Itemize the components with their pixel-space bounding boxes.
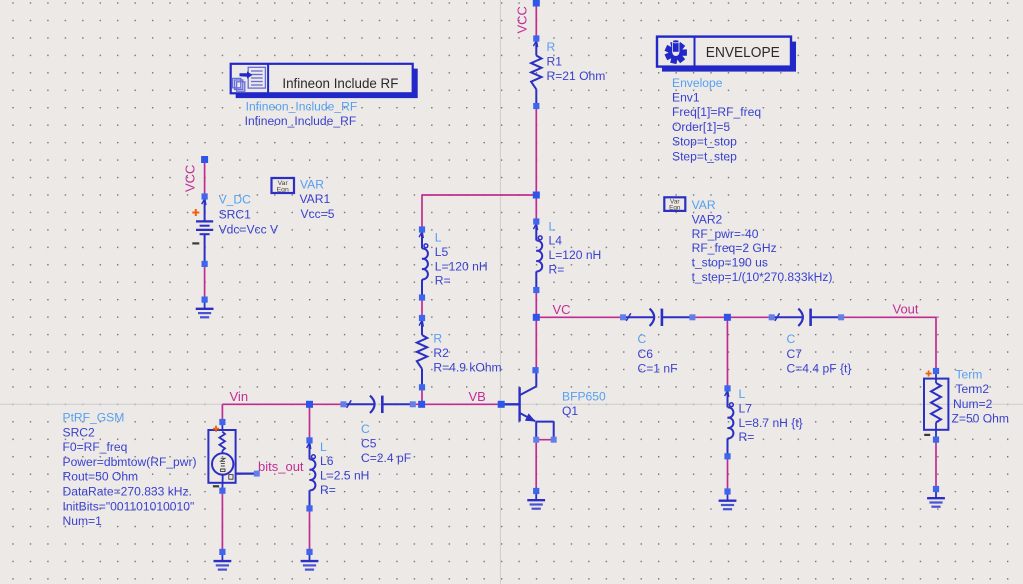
svg-text:t_stop=190 us: t_stop=190 us xyxy=(692,256,768,270)
svg-text:InitBits="001101010010": InitBits="001101010010" xyxy=(63,499,195,513)
wire R1 to L4 / junction xyxy=(535,106,537,222)
plus marker SRC2 xyxy=(213,428,219,430)
svg-text:C=4.4 pF {t}: C=4.4 pF {t} xyxy=(787,361,852,375)
wire C6 to C7 xyxy=(693,316,772,318)
svg-text:C5: C5 xyxy=(361,437,377,451)
svg-text:VB: VB xyxy=(469,389,486,404)
ground under Q1 emitter xyxy=(527,488,545,509)
inductor L7 xyxy=(724,385,733,459)
svg-text:Num=2: Num=2 xyxy=(953,397,993,411)
svg-text:R=: R= xyxy=(320,483,336,497)
svg-text:R1: R1 xyxy=(547,54,563,68)
svg-text:Eqn: Eqn xyxy=(669,205,681,212)
wire R2 to VB node xyxy=(421,387,423,404)
svg-text:L=2.5 nH: L=2.5 nH xyxy=(320,469,369,483)
svg-text:Q1: Q1 xyxy=(562,404,578,418)
svg-text:Order[1]=5: Order[1]=5 xyxy=(672,120,730,134)
ground under Term2 xyxy=(927,486,945,507)
svg-text:t_step=1/(10*270.833kHz): t_step=1/(10*270.833kHz) xyxy=(692,270,833,284)
svg-text:L4: L4 xyxy=(549,234,563,248)
svg-text:R=21 Ohm: R=21 Ohm xyxy=(547,69,606,83)
svg-text:VAR1: VAR1 xyxy=(300,192,331,206)
svg-text:R=4.9 kOhm: R=4.9 kOhm xyxy=(433,361,501,375)
svg-text:bits_out: bits_out xyxy=(258,459,304,474)
plus marker SRC1 xyxy=(192,212,199,214)
transistor Q1 BFP650 xyxy=(501,367,557,443)
svg-text:Infineon Include RF: Infineon Include RF xyxy=(282,75,398,91)
wire VC xyxy=(536,316,623,318)
svg-text:C: C xyxy=(361,422,370,436)
svg-text:Infineon_Include_RF: Infineon_Include_RF xyxy=(245,114,357,128)
svg-text:Term: Term xyxy=(956,367,983,381)
wire VCC stub SRC1 xyxy=(204,160,206,197)
svg-text:Envelope: Envelope xyxy=(672,76,723,90)
wire Vin to SRC2 xyxy=(221,404,223,422)
wire C7 to Vout corner xyxy=(841,316,936,318)
node VC xyxy=(533,314,540,321)
node base xyxy=(498,401,505,408)
DC source SRC1 xyxy=(192,193,213,267)
minus marker Term2 xyxy=(924,434,930,436)
ground under SRC1 xyxy=(196,297,214,318)
RF source SRC2 xyxy=(208,419,259,494)
svg-text:Vin: Vin xyxy=(230,389,249,404)
envelope gear icon xyxy=(665,41,687,64)
wire Term2 to ground xyxy=(935,440,937,489)
net label VCC top xyxy=(515,6,530,33)
svg-text:L7: L7 xyxy=(739,401,753,415)
plus marker Term2 xyxy=(926,373,932,375)
node VB / R2 xyxy=(418,401,425,408)
svg-text:Num=1: Num=1 xyxy=(63,514,103,528)
inductor L4 xyxy=(533,218,542,293)
svg-text:R: R xyxy=(433,332,442,346)
svg-text:SRC1: SRC1 xyxy=(219,208,252,222)
svg-text:L: L xyxy=(320,440,327,454)
svg-text:Vdc=Vcc V: Vdc=Vcc V xyxy=(219,222,279,236)
wire down to L7 xyxy=(726,317,728,388)
svg-text:RF_freq=2 GHz: RF_freq=2 GHz xyxy=(692,241,777,255)
svg-text:Vcc=5: Vcc=5 xyxy=(301,207,335,221)
svg-text:C7: C7 xyxy=(787,347,803,361)
wire L5 to R2 xyxy=(421,298,423,319)
wire emitter to ground xyxy=(535,440,537,491)
terminator Term2 xyxy=(924,368,948,443)
svg-text:Z=50 Ohm: Z=50 Ohm xyxy=(952,412,1009,426)
svg-text:Eqn: Eqn xyxy=(277,187,289,194)
svg-text:L: L xyxy=(435,231,442,245)
ground under L6 xyxy=(301,549,319,570)
svg-text:VCC: VCC xyxy=(515,6,530,33)
wire L7 to ground xyxy=(727,456,729,491)
inductor L6 xyxy=(306,437,315,511)
minus marker SRC1 xyxy=(192,242,199,244)
svg-text:L: L xyxy=(549,219,556,233)
wire SRC2 to ground xyxy=(221,491,223,552)
svg-text:R: R xyxy=(547,40,556,54)
inductor L5 xyxy=(419,226,428,300)
node junction L5 branch xyxy=(533,192,540,199)
svg-text:Vout: Vout xyxy=(893,302,919,317)
svg-text:Stop=t_stop: Stop=t_stop xyxy=(672,135,737,149)
wire down to L5 xyxy=(421,194,423,229)
svg-text:VAR2: VAR2 xyxy=(692,212,723,226)
svg-text:VAR: VAR xyxy=(300,178,324,192)
ground under SRC2 xyxy=(214,549,232,570)
node L6 branch xyxy=(306,401,313,408)
svg-text:BFP650: BFP650 xyxy=(562,389,606,403)
wire SRC1 to ground xyxy=(204,264,206,300)
svg-text:ENVELOPE: ENVELOPE xyxy=(706,44,780,61)
wire junction to L5 branch xyxy=(422,194,536,196)
svg-text:PtRF_GSM: PtRF_GSM xyxy=(63,411,125,425)
svg-text:Freq[1]=RF_freq: Freq[1]=RF_freq xyxy=(672,105,761,119)
svg-text:C=1 nF: C=1 nF xyxy=(638,361,678,375)
node VCC top xyxy=(533,0,540,7)
svg-text:C: C xyxy=(787,332,796,346)
svg-text:VC: VC xyxy=(553,302,571,317)
ENVELOPE controller block xyxy=(657,37,796,72)
svg-text:Infineon_Include_RF: Infineon_Include_RF xyxy=(246,99,358,113)
svg-text:L=120 nH: L=120 nH xyxy=(435,259,488,273)
svg-text:L5: L5 xyxy=(435,245,449,259)
wire Vout down to Term2 xyxy=(935,317,937,372)
svg-text:R=: R= xyxy=(435,274,451,288)
Infineon Include RF block xyxy=(231,64,418,98)
capacitor C6 xyxy=(620,309,695,326)
capacitor C7 xyxy=(769,309,844,326)
svg-text:SRC2: SRC2 xyxy=(63,425,96,439)
bits_out stub wire xyxy=(236,473,257,475)
svg-text:L=120 nH: L=120 nH xyxy=(549,248,602,262)
wire L4 to VC / collector xyxy=(535,290,537,370)
net label VCC left xyxy=(183,165,198,192)
resistor R2 xyxy=(417,315,427,391)
svg-text:R=: R= xyxy=(739,430,755,444)
VAR2 equation block icon xyxy=(664,197,685,211)
svg-text:C: C xyxy=(638,332,647,346)
svg-text:L=8.7 nH {t}: L=8.7 nH {t} xyxy=(739,416,803,430)
svg-text:Power=dbmtow(RF_pwr): Power=dbmtow(RF_pwr) xyxy=(63,455,197,469)
resistor R1 xyxy=(531,35,541,109)
wire VB node to L6 xyxy=(309,404,311,440)
node VCC SRC1 xyxy=(201,156,208,163)
svg-text:Env1: Env1 xyxy=(672,91,700,105)
svg-text:R2: R2 xyxy=(433,346,449,360)
svg-text:Step=t_step: Step=t_step xyxy=(672,149,737,163)
svg-text:L6: L6 xyxy=(320,454,334,468)
svg-text:C=2.4 pF: C=2.4 pF xyxy=(361,451,411,465)
svg-text:Term2: Term2 xyxy=(956,382,990,396)
svg-text:V_DC: V_DC xyxy=(219,193,252,207)
svg-text:VCC: VCC xyxy=(183,165,198,192)
svg-text:VAR: VAR xyxy=(692,198,716,212)
svg-text:RF_pwr=-40: RF_pwr=-40 xyxy=(692,227,759,241)
wire Vin xyxy=(222,403,343,405)
ground under L7 xyxy=(719,488,737,509)
wire emitter tie xyxy=(536,439,554,441)
page boundary lines xyxy=(499,0,501,584)
svg-text:L: L xyxy=(739,387,746,401)
VAR1 equation block icon xyxy=(272,178,295,193)
wire VB xyxy=(413,403,501,405)
include icon xyxy=(233,67,266,91)
wire VCC stub to R1 xyxy=(535,3,537,39)
wire L6 to ground xyxy=(309,508,311,552)
node L7 branch xyxy=(724,314,731,321)
capacitor C5 xyxy=(340,396,415,413)
svg-text:R=: R= xyxy=(549,263,565,277)
svg-text:DataRate=270.833 kHz.: DataRate=270.833 kHz. xyxy=(63,485,192,499)
svg-text:F0=RF_freq: F0=RF_freq xyxy=(63,440,128,454)
svg-text:C6: C6 xyxy=(638,347,654,361)
svg-text:Rout=50 Ohm: Rout=50 Ohm xyxy=(63,470,139,484)
minus marker SRC2 xyxy=(213,485,219,487)
